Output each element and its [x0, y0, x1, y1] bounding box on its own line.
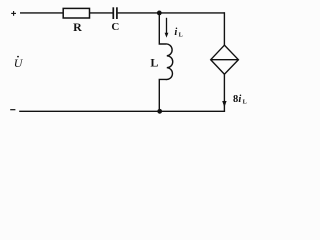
resistor R — [63, 8, 89, 18]
bottom wire — [19, 110, 225, 112]
wire: dependent source to bottom-right corner (with current arrow) — [223, 74, 225, 111]
wire: top-right corner down to dependent source — [223, 12, 225, 45]
terminal + (positive polarity mark) — [11, 11, 16, 16]
svg-text:C: C — [111, 21, 119, 33]
dependent source U1 (diamond, CCCS 8iL) — [211, 45, 239, 74]
svg-text:R: R — [73, 20, 82, 34]
svg-text:i: i — [174, 27, 177, 38]
svg-text:U: U — [14, 56, 24, 70]
inductor L — [159, 13, 172, 111]
node A (junction dot on top wire) — [157, 11, 162, 16]
arrowhead on source branch (points down) — [222, 101, 226, 107]
svg-text:L: L — [243, 99, 247, 106]
wire top-left: + terminal to resistor R — [20, 12, 64, 14]
wire: capacitor C to top-right corner — [118, 12, 225, 14]
svg-text:i: i — [238, 94, 241, 105]
current arrow iL (beside inductor wire) — [165, 18, 169, 38]
svg-text:L: L — [179, 32, 183, 39]
wire: resistor R to capacitor C — [90, 12, 113, 14]
node B (junction dot on bottom wire) — [157, 109, 162, 114]
svg-text:L: L — [150, 55, 158, 69]
terminal - (negative polarity mark) — [10, 109, 15, 111]
capacitor C — [113, 7, 117, 19]
